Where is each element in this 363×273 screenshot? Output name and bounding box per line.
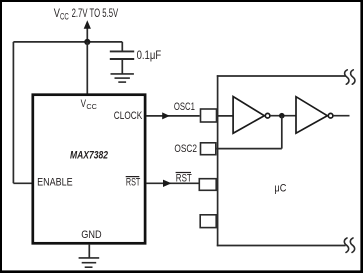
microcontroller U2 uC top edge: [217, 75, 346, 77]
svg-text:μC: μC: [274, 182, 286, 194]
wire RST to uC RST pin: [146, 182, 199, 184]
svg-text:RST: RST: [176, 172, 192, 184]
wire top horizontal from left riser to capacitor: [13, 41, 122, 43]
pin box RST: [199, 179, 216, 191]
junction feedback node dot: [279, 113, 285, 119]
wire CLOCK to OSC1: [146, 115, 199, 117]
wire GND pin drop: [88, 245, 90, 258]
IC U1 MAX7382 body: [33, 95, 145, 244]
wire left riser down to ENABLE: [12, 42, 14, 183]
wire inverter1 output to inverter2 input: [270, 115, 296, 117]
inverter gate 1: [233, 97, 270, 134]
pin box OSC2: [201, 143, 216, 155]
wire inverter2 output: [333, 115, 350, 117]
svg-text:ENABLE: ENABLE: [37, 177, 73, 189]
VCC supply arrow: [84, 20, 91, 42]
wire feedback drop: [281, 116, 283, 149]
ground (chip GND): [79, 258, 100, 267]
svg-text:OSC1: OSC1: [174, 101, 195, 113]
ground (capacitor): [111, 74, 134, 82]
svg-text:CC: CC: [60, 12, 69, 22]
pin box OSC1: [201, 109, 217, 122]
svg-text:RST: RST: [126, 177, 141, 189]
microcontroller U2 uC left edge: [217, 75, 219, 246]
wire feedback to OSC2 pin: [217, 148, 282, 150]
wire VCC drop into chip pin: [86, 42, 88, 95]
inverter gate 2: [296, 97, 333, 134]
arrow RST signal direction: [163, 180, 172, 187]
capacitor C1 0.1uF: [110, 42, 134, 74]
svg-text:2.7V TO 5.5V: 2.7V TO 5.5V: [72, 6, 119, 20]
junction VCC node dot: [84, 39, 90, 45]
svg-text:MAX7382: MAX7382: [70, 150, 108, 162]
pin box spare: [200, 215, 216, 228]
svg-text:CLOCK: CLOCK: [114, 110, 143, 122]
microcontroller U2 uC bottom edge: [217, 245, 346, 247]
svg-text:0.1μF: 0.1μF: [137, 49, 162, 62]
svg-text:OSC2: OSC2: [174, 143, 197, 155]
svg-text:CC: CC: [86, 102, 97, 111]
pin label VCC: [81, 98, 98, 111]
break mark bottom right: [344, 238, 354, 252]
arrow CLOCK signal direction: [162, 112, 170, 119]
svg-text:GND: GND: [81, 229, 102, 241]
break mark top right: [345, 70, 355, 84]
wire OSC1 pin to inverter input: [217, 115, 233, 117]
node VCC supply label: [54, 6, 119, 21]
wire ENABLE horizontal into chip: [13, 182, 33, 184]
